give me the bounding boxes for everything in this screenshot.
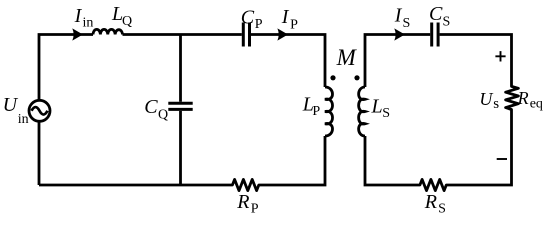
wire primary left vertical top + top wire to L_Q — [39, 35, 93, 100]
svg-text:U: U — [479, 89, 493, 109]
arrow I_S — [394, 28, 405, 40]
svg-text:in: in — [83, 16, 94, 31]
wire secondary left vertical top + top wire to arrow — [365, 35, 430, 88]
wire L_Q to C_P left plate — [123, 33, 242, 36]
svg-text:S: S — [403, 16, 411, 31]
svg-text:I: I — [281, 6, 290, 28]
wire primary left vertical bottom — [38, 122, 41, 185]
svg-text:S: S — [382, 106, 390, 121]
svg-text:C: C — [241, 6, 255, 28]
minus sign — [497, 158, 507, 160]
capacitor C_S — [432, 23, 438, 47]
capacitor C_Q — [168, 103, 192, 109]
svg-text:C: C — [144, 96, 158, 118]
AC source U_in — [29, 100, 50, 121]
svg-text:I: I — [394, 4, 403, 26]
svg-text:eq: eq — [530, 97, 543, 112]
resistor R_eq — [506, 85, 519, 112]
wire C_P to primary right corner, down to L_P — [251, 35, 325, 88]
svg-text:P: P — [255, 17, 263, 32]
inductor L_Q — [93, 29, 123, 34]
svg-text:S: S — [443, 15, 451, 30]
capacitor C_P — [243, 23, 249, 47]
svg-text:P: P — [290, 18, 298, 33]
svg-text:R: R — [424, 191, 437, 213]
svg-text:R: R — [517, 88, 529, 108]
svg-text:I: I — [74, 5, 83, 27]
svg-text:Q: Q — [158, 108, 168, 123]
arrow I_P — [277, 28, 288, 40]
svg-text:s: s — [493, 96, 499, 112]
arrow I_in — [72, 28, 83, 40]
polarity dot primary — [330, 75, 335, 80]
svg-text:U: U — [3, 94, 19, 116]
resistor R_P — [231, 179, 261, 190]
wire C_Q branch bottom — [179, 111, 182, 185]
polarity dot secondary — [354, 75, 359, 80]
svg-text:R: R — [236, 191, 249, 213]
svg-text:L: L — [371, 96, 383, 118]
svg-text:in: in — [18, 112, 29, 127]
resistor R_S — [419, 179, 449, 190]
wire R_eq to bottom right corner to R_S — [449, 112, 512, 186]
inductor L_P (bumps right) — [325, 87, 333, 136]
inductor L_S (bumps left) — [359, 87, 365, 136]
svg-text:P: P — [251, 202, 259, 217]
wire C_Q branch top — [179, 35, 182, 102]
wire C_S to secondary right corner down to R_eq — [440, 35, 512, 85]
svg-text:Q: Q — [122, 14, 132, 29]
wire R_P to bottom left corner up to source — [39, 184, 231, 187]
svg-text:C: C — [429, 3, 443, 25]
svg-text:S: S — [438, 202, 446, 217]
svg-text:P: P — [312, 104, 320, 119]
plus sign — [495, 51, 505, 61]
svg-text:M: M — [336, 45, 358, 70]
wire L_P bottom to bottom wire to R_P — [261, 136, 325, 185]
wire R_S to secondary bottom left corner up to L_S — [365, 136, 419, 185]
